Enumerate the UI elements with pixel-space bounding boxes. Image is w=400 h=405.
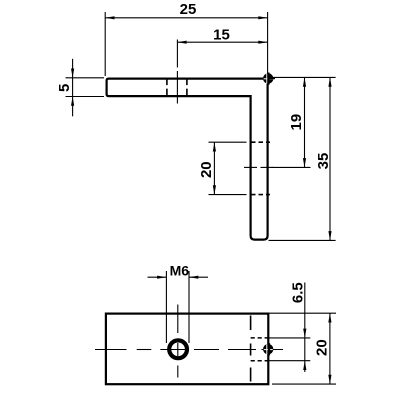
M6 hole vertical centerline: [177, 305, 179, 378]
hidden hole lines M6 in side view: [167, 79, 187, 97]
corner point marker (side view): [263, 73, 275, 85]
svg-text:M6: M6: [170, 263, 190, 279]
svg-text:19: 19: [288, 114, 305, 131]
dimension 35: [329, 77, 331, 240]
slot hidden edges (plan view) with extension lines: [251, 338, 269, 361]
bottom right extension line: [269, 239, 336, 241]
dimension 15: [177, 41, 267, 43]
plate horizontal centerline: [95, 349, 283, 351]
dimension 25: [105, 12, 267, 76]
slot end point marker (plan view): [263, 343, 273, 355]
svg-text:35: 35: [315, 153, 332, 170]
dimension 20 (slot length, side view): [209, 142, 247, 194]
svg-text:25: 25: [180, 1, 197, 18]
dimension 20 (plan view depth): [268, 313, 336, 384]
svg-text:5: 5: [56, 84, 73, 92]
dimension M6: [148, 271, 209, 343]
top right extension line: [272, 76, 336, 78]
bracket side-view outline (L-profile): [107, 79, 268, 240]
dimension 19: [304, 77, 306, 167]
svg-text:20: 20: [314, 339, 331, 356]
hole centerline side view: [176, 40, 178, 104]
slot centerline (side view): [244, 166, 273, 168]
plan view plate outline: [106, 314, 268, 385]
svg-text:20: 20: [198, 161, 215, 178]
bend hidden line (plan view): [250, 316, 252, 382]
dimension 5 (plate thickness): [66, 59, 105, 117]
dimension 6.5: [304, 283, 306, 373]
M6 tapped hole (plan view): [169, 340, 187, 358]
svg-text:15: 15: [213, 27, 230, 44]
svg-text:6.5: 6.5: [289, 282, 306, 303]
slot hidden edges in vertical leg (side view): [251, 142, 270, 194]
